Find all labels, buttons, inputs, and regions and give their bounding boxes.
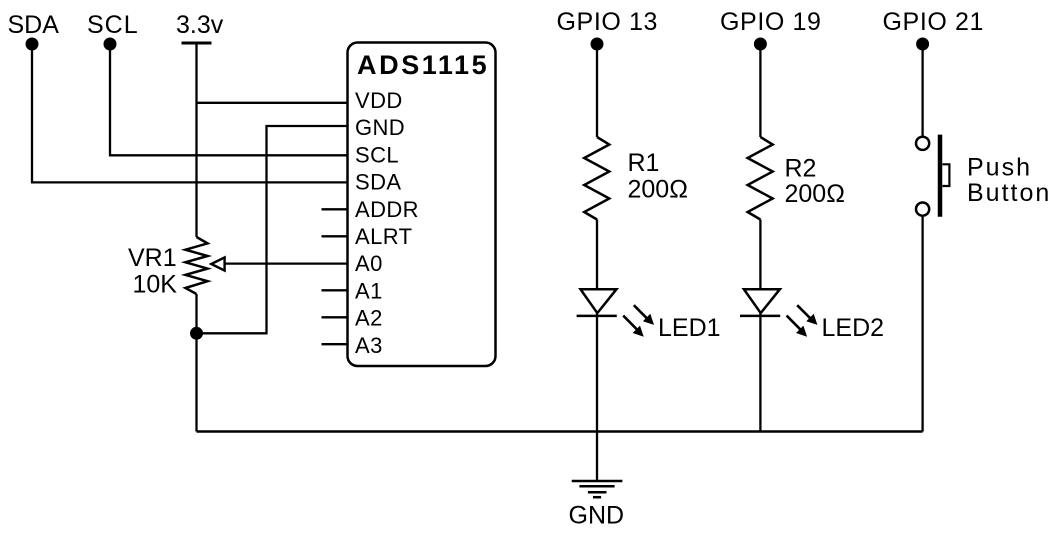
svg-text:GND: GND xyxy=(355,115,405,140)
wire SCL terminal to chip SCL pin xyxy=(110,46,348,155)
wire chip GND pin to junction xyxy=(197,126,349,333)
svg-text:R2: R2 xyxy=(785,155,817,183)
svg-text:SDA: SDA xyxy=(8,11,60,39)
wire R1 to LED1 xyxy=(596,220,598,290)
wire chip A0 pin to VR1 wiper xyxy=(224,262,348,264)
ground xyxy=(569,481,625,529)
wire LED2 to bus xyxy=(759,313,761,432)
svg-text:R1: R1 xyxy=(628,149,660,177)
svg-text:LED2: LED2 xyxy=(822,314,885,342)
svg-text:200Ω: 200Ω xyxy=(785,180,845,208)
svg-text:Push: Push xyxy=(967,153,1032,181)
chip U1 ADS1115 body xyxy=(348,43,496,367)
pin A1 stub xyxy=(322,289,349,291)
pin A2 stub xyxy=(322,316,349,318)
svg-text:VR1: VR1 xyxy=(128,244,177,272)
svg-text:SCL: SCL xyxy=(87,11,139,39)
svg-text:ADS1115: ADS1115 xyxy=(357,50,489,80)
svg-text:A0: A0 xyxy=(355,251,383,276)
node SDA xyxy=(8,11,60,51)
wire GPIO21 to switch xyxy=(921,46,923,136)
LED LED1 xyxy=(577,289,721,342)
svg-text:Button: Button xyxy=(967,179,1051,207)
svg-text:GPIO 13: GPIO 13 xyxy=(557,8,658,36)
svg-text:GND: GND xyxy=(569,501,625,529)
resistor R2 xyxy=(748,137,845,220)
wire ground bus xyxy=(197,430,923,433)
wire switch to bus xyxy=(921,217,923,432)
svg-text:GPIO 19: GPIO 19 xyxy=(720,8,821,36)
svg-text:GPIO 21: GPIO 21 xyxy=(883,8,984,36)
wire VR1 bottom to bus xyxy=(195,294,197,432)
svg-text:ALRT: ALRT xyxy=(355,224,412,249)
wire LED1 to ground xyxy=(596,313,598,481)
pin ALRT stub xyxy=(322,235,349,237)
svg-text:VDD: VDD xyxy=(355,88,403,113)
wiper arrowhead xyxy=(211,257,224,270)
wire GPIO19 to R2 xyxy=(759,46,761,137)
wire VDD from 3.3v rail to chip xyxy=(197,102,349,104)
svg-text:LED1: LED1 xyxy=(658,314,721,342)
wire 3.3v rail down to VR1 xyxy=(195,43,197,237)
wire GPIO13 to R1 xyxy=(596,46,598,137)
svg-text:SCL: SCL xyxy=(355,142,399,167)
wire SDA terminal to chip SDA pin xyxy=(32,46,348,182)
svg-text:A1: A1 xyxy=(355,278,383,303)
wire R2 to LED2 xyxy=(759,220,761,290)
svg-text:3.3v: 3.3v xyxy=(176,11,224,39)
potentiometer VR1 xyxy=(128,237,208,299)
node GPIO 19 xyxy=(720,8,821,51)
LED LED2 xyxy=(740,289,884,342)
pin ADDR stub xyxy=(322,208,349,210)
svg-text:10K: 10K xyxy=(133,271,178,299)
pin A3 stub xyxy=(322,343,349,345)
power 3.3v xyxy=(176,11,224,43)
svg-text:A3: A3 xyxy=(355,333,383,358)
node GPIO 13 xyxy=(557,8,658,51)
svg-text:SDA: SDA xyxy=(355,170,401,195)
svg-text:A2: A2 xyxy=(355,306,383,331)
node SCL xyxy=(87,11,139,51)
svg-text:ADDR: ADDR xyxy=(355,197,419,222)
pushbutton SW1 xyxy=(916,135,1051,217)
node GPIO 21 xyxy=(883,8,984,51)
junction dot xyxy=(190,327,203,340)
svg-text:200Ω: 200Ω xyxy=(628,176,688,204)
resistor R1 xyxy=(584,137,688,220)
